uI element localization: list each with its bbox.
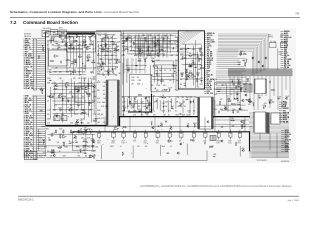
pin tick J1-24: [34, 87, 37, 89]
svg-text:100K: 100K: [97, 118, 100, 120]
wire C-h7: [182, 58, 202, 60]
svg-text:C118: C118: [81, 119, 85, 121]
transistor Q252: [53, 154, 55, 156]
pin tick J2-28: [34, 154, 37, 156]
wire J2 pin 10: [37, 115, 45, 117]
pin tick J2-7: [34, 108, 37, 110]
svg-text:1K: 1K: [115, 126, 117, 128]
ground sym 123: [174, 69, 176, 72]
svg-text:1K: 1K: [249, 99, 251, 101]
svg-text:100K: 100K: [146, 42, 149, 44]
bus wire B0: [218, 34, 269, 69]
svg-text:4.7K: 4.7K: [55, 68, 58, 70]
wire J2 pin 8: [37, 110, 45, 112]
op-amp U36: [87, 56, 90, 59]
resistor R268: [83, 129, 84, 131]
svg-text:10K: 10K: [189, 53, 192, 55]
svg-text:R217: R217: [211, 146, 215, 148]
svg-text:390: 390: [47, 151, 50, 153]
svg-text:R217: R217: [63, 156, 67, 158]
svg-text:390: 390: [258, 95, 261, 97]
svg-text:220: 220: [87, 123, 90, 125]
svg-text:C405: C405: [75, 110, 79, 112]
junction B13: [111, 140, 114, 143]
svg-text:NU: NU: [193, 111, 195, 113]
svg-text:33pF: 33pF: [112, 41, 115, 43]
svg-text:10K: 10K: [145, 146, 148, 148]
bus band wire 12: [228, 75, 293, 77]
junction M21: [156, 66, 159, 69]
pin tick J2-12: [34, 119, 37, 121]
op-amp U164: [189, 65, 192, 68]
svg-text:R331: R331: [238, 62, 242, 64]
wire A2-v0: [50, 87, 52, 120]
svg-text:680: 680: [128, 97, 131, 99]
bottom right wire b8: [281, 145, 284, 147]
resistor R188: [238, 79, 240, 82]
diode D147: [137, 110, 140, 112]
transistor Q67: [49, 96, 51, 98]
svg-text:1K: 1K: [89, 101, 91, 103]
pin tick J1-3: [34, 42, 37, 44]
pin tick J1-21: [34, 81, 37, 83]
diode D68: [80, 112, 83, 114]
transistor Q142: [146, 107, 148, 109]
wire M1-v13: [177, 37, 179, 53]
net wire tail RX_EN: [217, 53, 243, 55]
op-amp U65: [70, 109, 73, 112]
op-amp U18: [83, 43, 86, 46]
right net wire r15: [281, 61, 284, 63]
capacitor C257: [48, 139, 49, 141]
IC U404 small: [271, 113, 280, 124]
right net wire r13: [281, 57, 284, 59]
wire M4-v17: [193, 98, 195, 115]
transistor Q236: [161, 124, 163, 126]
svg-text:390: 390: [169, 80, 172, 82]
wire M4-v9: [156, 98, 158, 109]
svg-text:100K: 100K: [262, 105, 265, 107]
svg-text:10K: 10K: [135, 97, 138, 99]
svg-text:NU: NU: [110, 37, 112, 39]
svg-text:R331: R331: [199, 48, 203, 50]
svg-text:MOD_IN: MOD_IN: [207, 58, 214, 60]
svg-text:29 VOL_HI: 29 VOL_HI: [24, 157, 33, 159]
svg-text:.047: .047: [150, 122, 153, 124]
svg-text:2.2uF: 2.2uF: [47, 110, 51, 112]
ground sym 115: [122, 53, 124, 56]
pin tick J2-2: [34, 97, 37, 99]
capacitor C216 electrolytic: [217, 133, 220, 138]
svg-text:SW_B+: SW_B+: [207, 35, 213, 37]
svg-text:4.7K: 4.7K: [44, 147, 47, 149]
resistor R139: [145, 112, 146, 114]
wire A2-v3: [66, 86, 68, 112]
bottom right wire b7: [281, 143, 284, 145]
bus wire B11: [218, 50, 254, 75]
net wire tail MOD_IN: [217, 57, 246, 59]
svg-text:TX_EN: TX_EN: [284, 67, 290, 69]
net wire stub RX_EN: [205, 53, 207, 55]
svg-text:NU: NU: [180, 79, 182, 81]
svg-text:2.2uF: 2.2uF: [75, 123, 79, 125]
junction M13: [153, 110, 156, 113]
pin tick J2-4: [34, 102, 37, 104]
junction A6: [97, 53, 100, 56]
capacitor C7: [40, 110, 41, 112]
svg-text:.01: .01: [184, 106, 186, 108]
resistor R201: [198, 57, 200, 60]
wire J1 pin 7: [37, 51, 45, 53]
wire Mh-v5: [144, 58, 146, 74]
resistor R267: [83, 145, 84, 147]
svg-text:100uF: 100uF: [97, 141, 101, 143]
pin tick J2-18: [34, 132, 37, 134]
svg-text:MOD_IN: MOD_IN: [207, 75, 214, 77]
svg-text:680: 680: [50, 156, 53, 158]
svg-text:33pF: 33pF: [80, 49, 83, 51]
junction M23: [120, 54, 123, 57]
net wire lower tail 8: [216, 86, 243, 88]
svg-text:R217: R217: [214, 89, 218, 91]
capacitor C264: [80, 150, 82, 151]
svg-text:33pF: 33pF: [244, 62, 247, 64]
resistor R37: [91, 61, 92, 63]
diode D184: [235, 111, 238, 113]
wire A1-v5: [79, 36, 81, 76]
capacitor C159: [200, 80, 201, 82]
transistor Q219: [242, 149, 244, 151]
top boundary wire 2: [121, 30, 178, 32]
bus drop wire 0: [229, 76, 231, 100]
svg-text:.01: .01: [114, 48, 116, 50]
svg-text:9V3: 9V3: [207, 50, 210, 52]
net wire tail AUX1: [217, 61, 241, 63]
transistor Q227: [152, 127, 154, 129]
pin tick J2-10: [34, 115, 37, 117]
ground sym 199: [264, 104, 266, 107]
svg-text:680: 680: [86, 142, 89, 144]
wire A1-h11: [53, 41, 82, 43]
wire M1-v11: [166, 36, 168, 52]
svg-text:.01: .01: [170, 146, 172, 148]
wire A1-v7: [85, 35, 87, 70]
svg-text:9V3: 9V3: [284, 53, 287, 55]
svg-text:5.6K: 5.6K: [91, 33, 94, 35]
net wire lower 2: [204, 74, 206, 76]
svg-text:GP7: GP7: [207, 68, 210, 70]
wire nb4: [215, 124, 249, 126]
svg-text:1K: 1K: [122, 97, 124, 99]
wire A2-h15: [50, 92, 84, 94]
resistor R17: [64, 37, 65, 39]
wire M1-v10: [162, 38, 164, 51]
svg-text:.01: .01: [109, 46, 111, 48]
capacitor C301: [52, 31, 53, 33]
pin tick J2-24: [34, 146, 37, 148]
svg-text:R217: R217: [122, 37, 126, 39]
inner divider wire 2: [123, 32, 125, 117]
capacitor C250: [84, 152, 85, 154]
svg-text:SPI_CLK: SPI_CLK: [207, 39, 215, 41]
svg-text:1K: 1K: [80, 68, 82, 70]
net wire stub AUX2: [205, 63, 207, 65]
bus band wire 0: [228, 68, 293, 70]
svg-text:220: 220: [57, 142, 60, 144]
capacitor C101: [89, 37, 91, 38]
svg-text:680: 680: [52, 45, 55, 47]
transistor Q231: [187, 125, 189, 127]
bus fan-in wire 5: [179, 31, 197, 42]
resistor R172: [239, 51, 241, 54]
pin tick J1-6: [34, 49, 37, 51]
svg-text:0.1: 0.1: [83, 78, 85, 80]
wire J2 pin 22: [37, 141, 45, 143]
resistor R22: [65, 42, 67, 45]
wire A3-v2: [105, 34, 107, 65]
svg-text:5.6K: 5.6K: [233, 109, 236, 111]
wire Mg-v5: [158, 34, 160, 58]
net wire stub TX_EN: [205, 51, 207, 53]
resistor R101: [68, 47, 69, 49]
svg-text:4.7K: 4.7K: [159, 37, 162, 39]
resistor R177: [234, 98, 235, 100]
svg-text:4.7K: 4.7K: [70, 123, 73, 125]
capacitor C311: [60, 60, 62, 61]
wire B1-v4: [239, 146, 241, 156]
svg-text:680: 680: [192, 60, 195, 62]
capacitor C54: [67, 100, 69, 101]
junction M9: [180, 36, 183, 39]
capacitor C138: [132, 105, 134, 106]
svg-text:.01: .01: [135, 35, 137, 37]
wire J1 pin 17: [37, 72, 45, 74]
ground sym 136: [147, 99, 149, 102]
svg-text:.047: .047: [147, 46, 150, 48]
svg-text:C118: C118: [97, 71, 101, 73]
wire M1-v0: [127, 38, 129, 54]
wire drop 180: [179, 117, 181, 132]
svg-text:GP7: GP7: [207, 77, 210, 79]
capacitor C155: [186, 73, 188, 74]
svg-text:NU: NU: [102, 61, 104, 63]
wire A3-h6: [98, 34, 116, 36]
svg-text:SW_B+: SW_B+: [284, 55, 289, 57]
capacitor C403: [248, 100, 249, 102]
svg-text:5.6K: 5.6K: [92, 60, 95, 62]
transistor Q20: [59, 36, 61, 38]
wire Mh-v1: [127, 58, 129, 74]
pin tick J2-14: [34, 124, 37, 126]
svg-text:B+: B+: [285, 142, 287, 144]
transistor Q103: [157, 40, 159, 42]
diode D58: [48, 79, 51, 81]
resistor R180: [235, 85, 237, 88]
resistor R119: [160, 80, 161, 82]
resistor R35: [66, 59, 67, 61]
svg-text:R331: R331: [97, 110, 101, 112]
wire Mg-v6: [162, 34, 164, 58]
svg-text:680: 680: [182, 97, 185, 99]
svg-text:.01: .01: [54, 119, 56, 121]
junction A24: [111, 35, 114, 38]
capacitor C207 electrolytic: [112, 133, 116, 138]
svg-text:C405: C405: [58, 72, 62, 74]
svg-text:.01: .01: [52, 83, 54, 85]
IC U403: [254, 112, 266, 133]
transistor Q130: [128, 69, 130, 71]
net wire lower 6: [204, 82, 206, 84]
wire A3-h8: [100, 41, 114, 43]
wire br-277: [276, 133, 278, 158]
resistor R310: [50, 60, 51, 62]
wire C-h9: [181, 78, 198, 80]
bus wire B6: [218, 43, 260, 72]
svg-text:47K: 47K: [55, 41, 58, 43]
wire A3-v4: [111, 36, 113, 70]
ground sym 197: [285, 104, 287, 107]
capacitor C131: [179, 113, 180, 115]
svg-text:2.2uF: 2.2uF: [162, 51, 166, 53]
capacitor C246: [51, 152, 52, 154]
svg-text:4.7K: 4.7K: [122, 55, 125, 57]
svg-text:.047: .047: [56, 114, 59, 116]
pin tick J2-9: [34, 113, 37, 115]
pin tick J1-19: [34, 77, 37, 79]
svg-text:47K: 47K: [58, 45, 61, 47]
svg-text:C405: C405: [122, 106, 126, 108]
IC U405: [198, 97, 213, 129]
bus band wire 3: [228, 70, 293, 72]
svg-text:100K: 100K: [157, 43, 160, 45]
capacitor C176: [242, 59, 243, 61]
svg-text:RX_EN: RX_EN: [207, 54, 213, 56]
svg-text:.047: .047: [39, 138, 42, 140]
crystal Y1: [44, 32, 47, 34]
bus wire B7: [218, 44, 259, 73]
svg-text:J401-1: J401-1: [268, 34, 273, 36]
svg-text:UNSW_B+: UNSW_B+: [207, 33, 215, 35]
junction B12: [161, 128, 164, 131]
svg-text:C405: C405: [186, 115, 190, 117]
pin tick J1-2: [34, 40, 37, 42]
wire M3-v0: [149, 65, 151, 91]
svg-text:33pF: 33pF: [82, 133, 85, 135]
bottom-right hatch band: [252, 140, 290, 142]
wire M1-v8: [154, 36, 156, 55]
wire A3-h14: [97, 66, 118, 68]
right net wire r14: [281, 59, 284, 61]
capacitor C217 electrolytic: [229, 133, 232, 138]
capacitor C140: [185, 98, 186, 100]
bus drop wire 9: [265, 76, 267, 96]
capacitor C125: [169, 88, 171, 89]
resistor R233: [93, 120, 94, 122]
svg-text:100K: 100K: [117, 42, 120, 44]
svg-text:C405: C405: [146, 55, 150, 57]
svg-text:5.6K: 5.6K: [214, 109, 217, 111]
svg-text:NU: NU: [101, 114, 103, 116]
junction A9: [97, 79, 100, 82]
wire M3-v3: [161, 65, 163, 84]
wire J2 pin 26: [37, 150, 45, 152]
svg-text:5.6K: 5.6K: [52, 41, 55, 43]
svg-text:NU: NU: [66, 83, 68, 85]
pin tick J2-1: [34, 95, 37, 97]
wire J1 pin 14: [37, 66, 45, 68]
pin tick J2-26: [34, 150, 37, 152]
wire M4-v11: [163, 100, 165, 113]
wire A1-v8: [93, 40, 95, 74]
transformer T501: [210, 136, 216, 141]
wire M1-h18: [128, 53, 165, 55]
svg-text:0.1: 0.1: [76, 96, 78, 98]
net wire lower tail 9: [216, 88, 242, 90]
right net wire r3: [281, 37, 284, 39]
svg-text:100K: 100K: [65, 42, 68, 44]
svg-text:R331: R331: [76, 147, 80, 149]
svg-text:OPT B+: OPT B+: [268, 36, 273, 38]
transistor Q234: [241, 121, 243, 123]
resistor R170: [244, 62, 246, 65]
bus wire B12: [218, 51, 252, 75]
wire B2-h6: [39, 145, 95, 147]
junction M1: [176, 74, 179, 77]
svg-text:220: 220: [69, 41, 72, 43]
wire B1-v1: [132, 145, 134, 158]
pin tick J1-7: [34, 51, 37, 53]
svg-text:100K: 100K: [129, 42, 132, 44]
resistor R62: [82, 112, 83, 114]
transistor Q60: [76, 121, 78, 123]
wire Mg-v0: [138, 34, 140, 58]
right net wire s8: [279, 119, 283, 121]
svg-text:47K: 47K: [133, 115, 136, 117]
svg-text:C405: C405: [92, 77, 96, 79]
wire R1-h5: [216, 104, 245, 106]
pin tick J2-8: [34, 110, 37, 112]
wire Mh-v3: [135, 58, 137, 74]
junction B4: [228, 134, 231, 137]
svg-text:0.1: 0.1: [120, 146, 122, 148]
svg-text:GP6: GP6: [284, 47, 287, 49]
resistor R502: [235, 141, 237, 144]
right net wire r18: [281, 67, 284, 69]
capacitor C57: [92, 78, 93, 80]
svg-text:220: 220: [252, 102, 255, 104]
svg-text:10K: 10K: [163, 42, 166, 44]
wire J1 pin 5: [37, 46, 45, 48]
svg-text:220: 220: [129, 37, 132, 39]
svg-text:1K: 1K: [62, 134, 64, 136]
svg-text:SPI_CLK: SPI_CLK: [284, 65, 291, 67]
wire C-int1: [185, 44, 187, 88]
transistor Q45: [56, 115, 58, 117]
svg-text:0.1: 0.1: [231, 79, 233, 81]
svg-text:9V3: 9V3: [283, 110, 286, 112]
svg-text:C118: C118: [151, 55, 155, 57]
wire A2-v7: [81, 76, 83, 110]
wire J1 pin 2: [37, 40, 45, 42]
net wire stub MOD_IN: [205, 57, 207, 59]
transistor Q241: [170, 127, 172, 129]
svg-text:33pF: 33pF: [162, 146, 165, 148]
svg-text:NU: NU: [57, 49, 59, 51]
svg-text:2.2uF: 2.2uF: [162, 37, 166, 39]
svg-text:ELEC: ELEC: [122, 143, 126, 145]
svg-text:100K: 100K: [220, 109, 223, 111]
svg-text:HLN9855B(F/G), HLN9529C(D/E/F/: HLN9855B(F/G), HLN9529C(D/E/F/G), HLN985…: [140, 184, 293, 188]
